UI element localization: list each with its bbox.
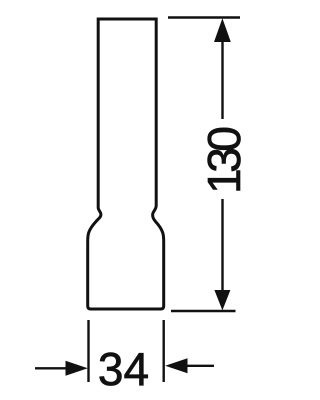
dimension 34: right extension line <box>162 320 164 382</box>
dimension 130: top arrowhead <box>214 18 231 42</box>
lamp chimney outline <box>88 19 164 309</box>
dimension 34: left extension line <box>87 320 89 382</box>
dimension 34: right dimension line <box>188 365 215 367</box>
svg-text:130: 130 <box>198 128 250 194</box>
svg-text:34: 34 <box>98 343 149 395</box>
dimension 34: left arrowhead <box>66 361 88 376</box>
dimension 130: vertical dimension line lower segment <box>221 199 223 290</box>
dimension 34: left dimension line <box>35 367 68 369</box>
dimension 130: top extension line <box>168 16 240 18</box>
dimension 130: bottom arrowhead <box>214 290 230 310</box>
dimension 130: vertical dimension line upper segment <box>221 40 223 119</box>
dimension 130: bottom extension line <box>171 310 236 312</box>
dimension 34: right arrowhead <box>165 358 187 373</box>
